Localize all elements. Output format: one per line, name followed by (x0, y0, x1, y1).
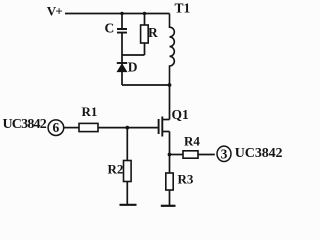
wire snubber bottom to drain node (122, 84, 170, 86)
resistor R1 body (79, 123, 98, 131)
diode D triangle (117, 64, 126, 71)
transformer T1 primary winding (170, 14, 175, 86)
resistor R3 body (166, 173, 173, 190)
resistor R body (141, 25, 149, 43)
resistor R4 body (183, 151, 198, 158)
svg-text:R: R (148, 25, 158, 40)
svg-text:R1: R1 (82, 104, 98, 119)
diode D cathode bar (117, 62, 127, 64)
svg-text:T1: T1 (175, 0, 191, 15)
wire top rail V+ (65, 13, 170, 15)
wire pin6 to R1 (64, 127, 79, 129)
svg-text:6: 6 (53, 120, 60, 135)
wire connector C branch to R branch (122, 54, 145, 56)
junction source / R4 (168, 153, 172, 157)
wire source to R4 (170, 154, 184, 156)
wire C bottom to diode to snubber node (121, 34, 123, 86)
wire R2 lower lead (126, 182, 128, 205)
wire C branch upper lead (121, 14, 123, 29)
resistor R2 body (124, 161, 132, 182)
transistor Q1 gate bar (158, 119, 160, 134)
svg-text:Q1: Q1 (172, 107, 190, 122)
junction drain node (168, 83, 172, 87)
svg-text:R3: R3 (178, 171, 194, 186)
pin 3 circle (217, 146, 231, 161)
wire R4 to pin 3 (198, 154, 215, 156)
svg-text:V+: V+ (47, 4, 63, 19)
wire R3 lower lead (169, 190, 171, 206)
wire R2 upper lead (126, 128, 128, 161)
svg-text:D: D (128, 60, 138, 75)
junction top rail / C branch (120, 12, 123, 15)
transistor Q1 drain stub (162, 119, 169, 121)
transistor Q1 channel bar (161, 117, 163, 137)
resistor R lower lead (144, 43, 146, 55)
svg-text:C: C (105, 21, 115, 36)
wire drain lead (169, 85, 171, 120)
pin 6 circle (48, 120, 64, 136)
transistor Q1 source stub (162, 131, 169, 133)
ground right (161, 205, 176, 207)
svg-text:UC3842: UC3842 (3, 117, 47, 132)
svg-text:3: 3 (221, 146, 228, 161)
capacitor C plates (117, 29, 127, 33)
svg-text:R2: R2 (108, 161, 124, 176)
ground left (120, 204, 137, 206)
svg-text:UC3842: UC3842 (235, 146, 283, 161)
resistor R upper lead (144, 14, 146, 26)
wire gate lead (98, 127, 159, 129)
junction gate / R2 (125, 126, 129, 130)
junction top rail / R branch (143, 12, 146, 15)
wire R3 upper lead (169, 155, 171, 174)
wire source lead (169, 132, 171, 155)
svg-text:R4: R4 (184, 134, 200, 149)
